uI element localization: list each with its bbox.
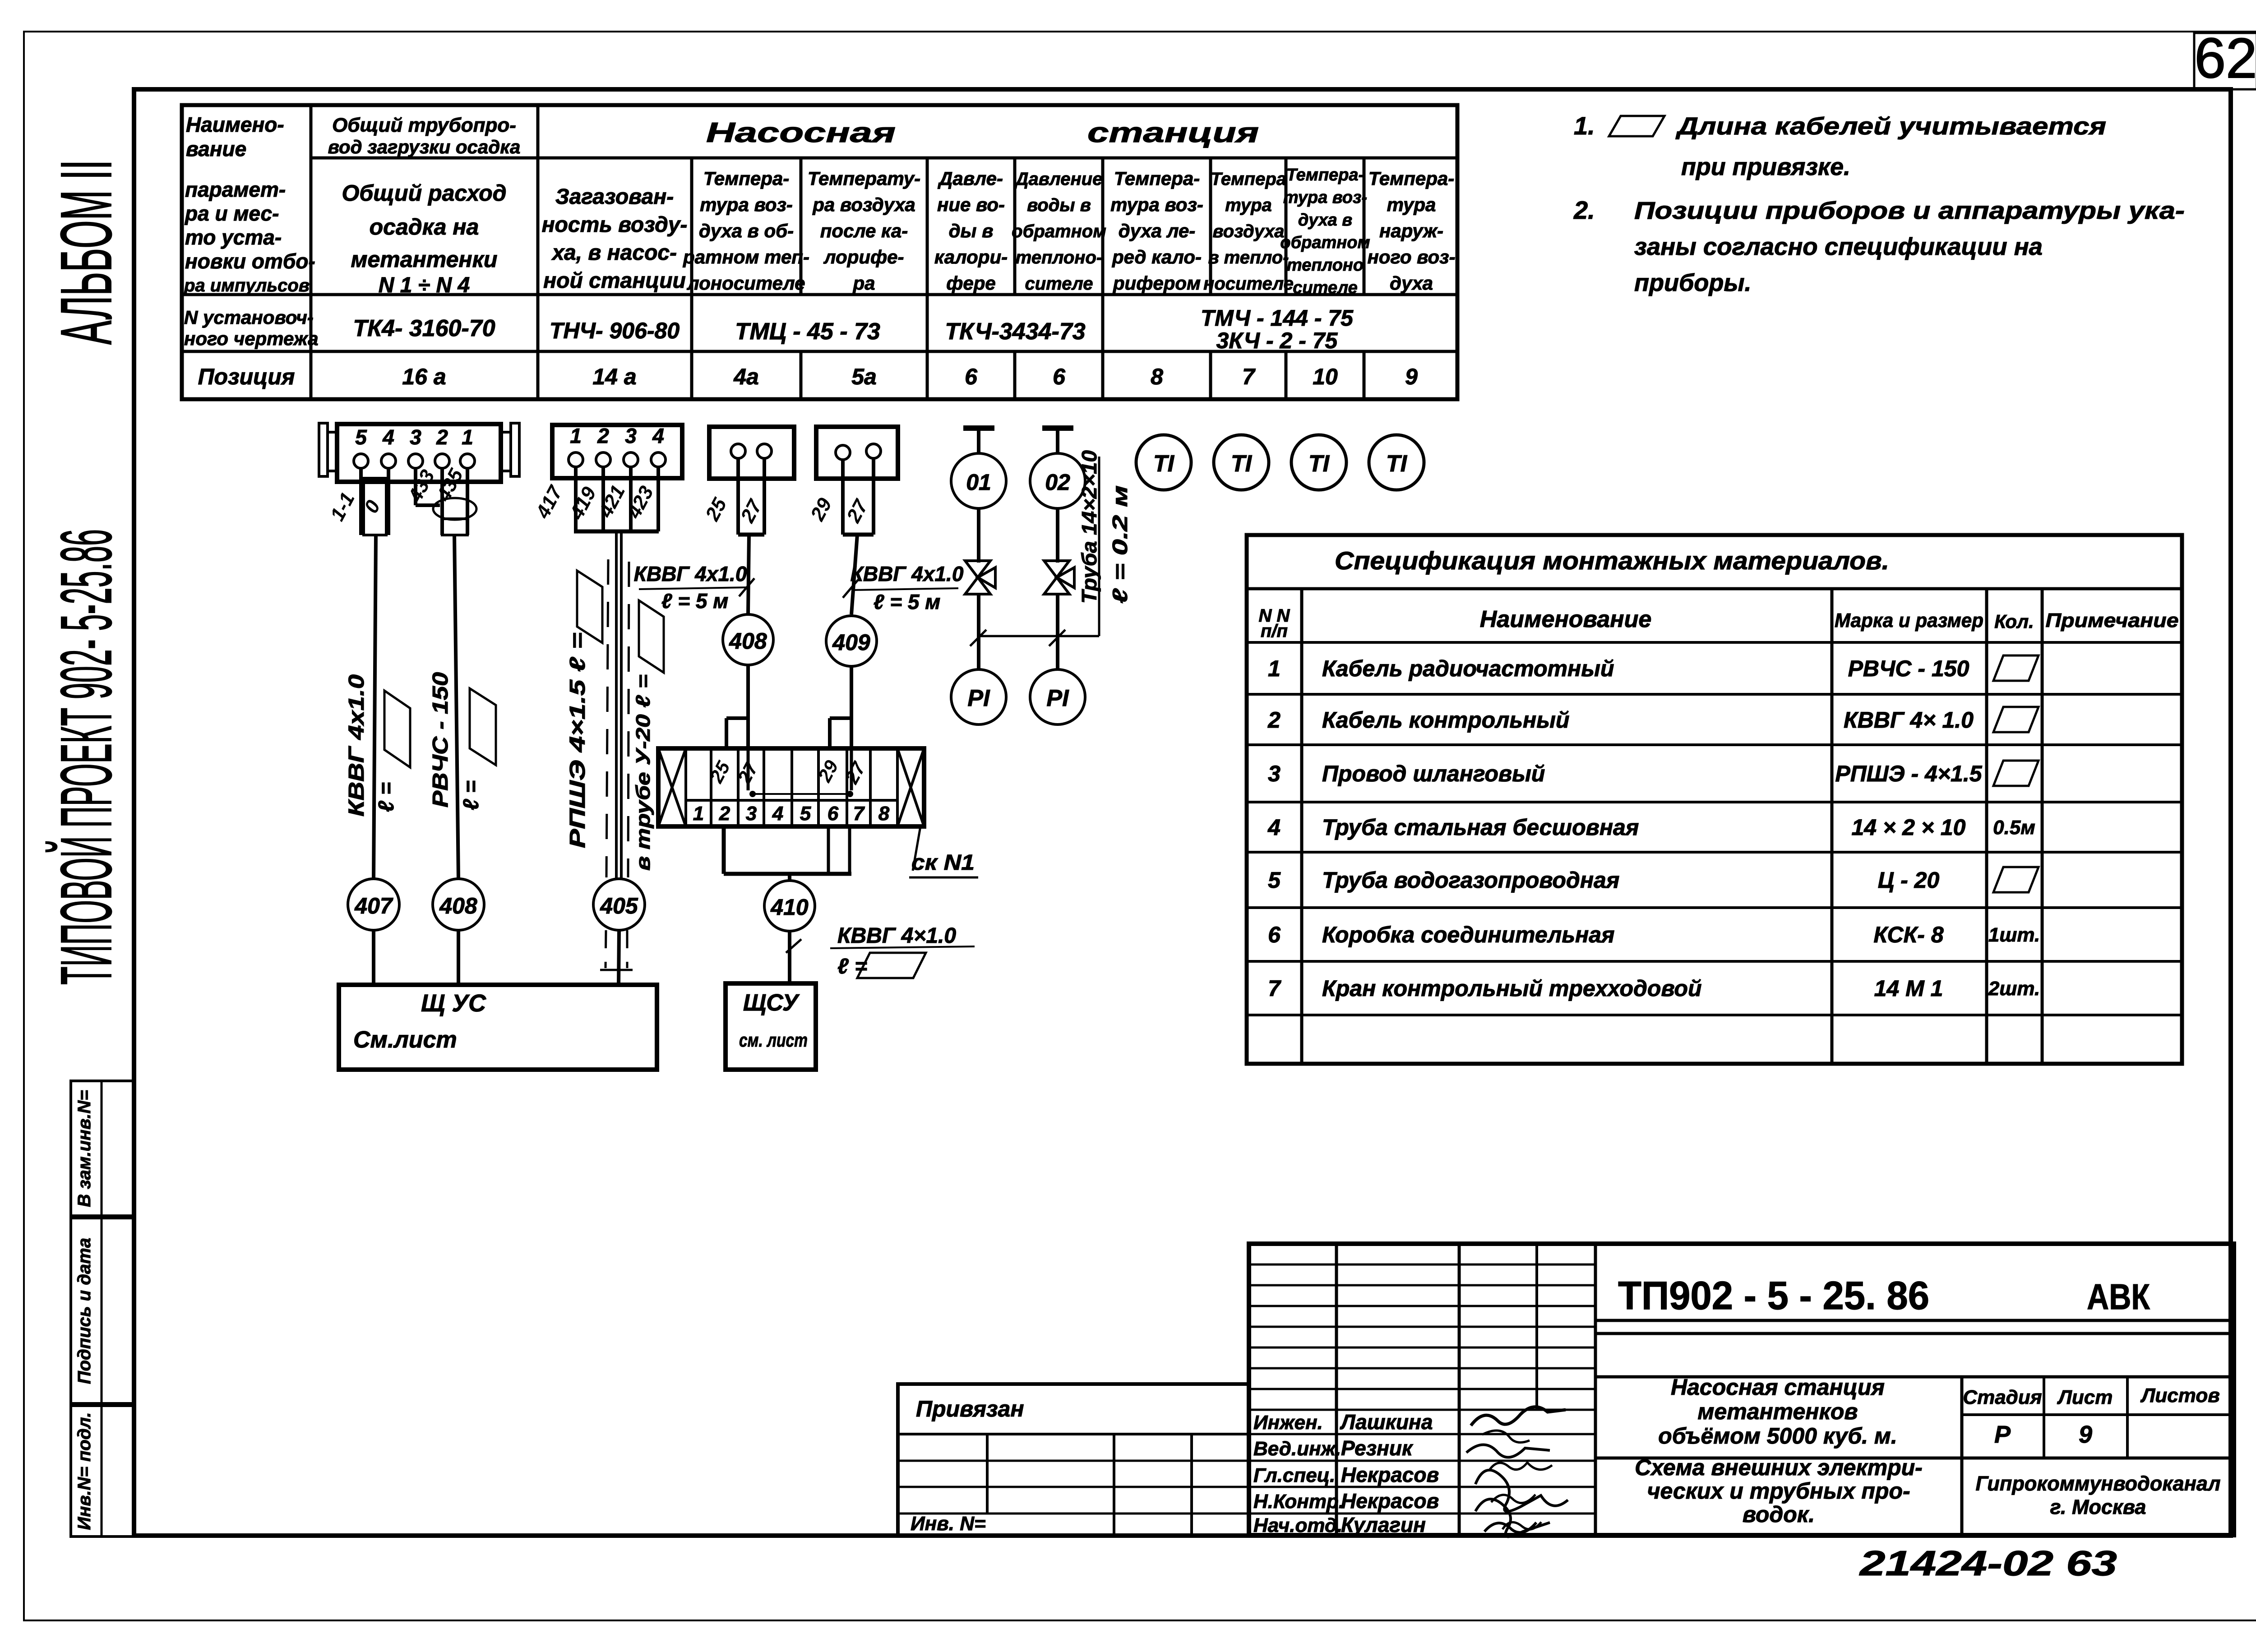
svg-text:Ц - 20: Ц - 20 — [1878, 868, 1940, 893]
pressure gauge PI 2 — [1030, 669, 1085, 724]
svg-text:16 а: 16 а — [402, 364, 446, 389]
pressure tap 02 branch — [1042, 425, 1073, 431]
svg-text:2: 2 — [1267, 707, 1281, 733]
svg-text:в трубе У-20 ℓ =: в трубе У-20 ℓ = — [632, 674, 654, 871]
svg-text:3: 3 — [625, 424, 637, 448]
svg-text:Инжен.: Инжен. — [1253, 1412, 1323, 1434]
label KVVG l=5M (409) — [851, 588, 958, 590]
svg-text:объёмом 5000 куб. м.: объёмом 5000 куб. м. — [1658, 1423, 1897, 1449]
svg-text:См.лист: См.лист — [353, 1027, 457, 1053]
svg-text:4а: 4а — [733, 364, 759, 389]
svg-text:Темпера-: Темпера- — [1286, 166, 1364, 185]
svg-text:5: 5 — [1268, 868, 1281, 893]
svg-text:3: 3 — [1268, 761, 1281, 786]
svg-text:сителе: сителе — [1025, 274, 1093, 294]
pressure gauge PI 1 — [951, 669, 1006, 724]
svg-text:Загазован-: Загазован- — [555, 185, 674, 209]
svg-text:см. лист: см. лист — [739, 1029, 808, 1051]
svg-text:Общий трубопро-: Общий трубопро- — [332, 114, 516, 136]
svg-text:Кабель радиочастотный: Кабель радиочастотный — [1322, 656, 1614, 681]
svg-text:ЩСУ: ЩСУ — [743, 990, 800, 1016]
svg-text:вание: вание — [186, 137, 246, 161]
svg-text:Примечание: Примечание — [2046, 609, 2179, 632]
svg-text:тура воз-: тура воз- — [1283, 188, 1367, 207]
svg-text:Гл.спец.: Гл.спец. — [1253, 1464, 1335, 1486]
svg-text:воды в: воды в — [1027, 195, 1091, 215]
svg-text:4: 4 — [1267, 815, 1281, 840]
svg-text:ТМЧ - 144 - 75: ТМЧ - 144 - 75 — [1201, 305, 1354, 331]
svg-text:7: 7 — [853, 803, 865, 825]
svg-text:теплоно-: теплоно- — [1016, 248, 1102, 268]
svg-text:то уста-: то уста- — [185, 226, 282, 249]
wire from XT1 terminal 4 — [387, 468, 390, 478]
sheet number box 62 — [2194, 33, 2256, 89]
svg-text:Насосная станция: Насосная станция — [1671, 1375, 1885, 1400]
svg-text:Лист: Лист — [2057, 1386, 2113, 1408]
svg-text:1: 1 — [693, 803, 704, 825]
svg-text:ТНЧ- 906-80: ТНЧ- 906-80 — [550, 318, 680, 343]
svg-text:Длина кабелей учитываетс: Длина кабелей учитывается — [1675, 113, 2106, 140]
svg-text:N 1 ÷ N 4: N 1 ÷ N 4 — [379, 273, 470, 297]
svg-text:калори-: калори- — [934, 246, 1008, 268]
svg-text:3КЧ - 2 - 75: 3КЧ - 2 - 75 — [1216, 328, 1338, 353]
svg-text:ТI: ТI — [1386, 451, 1408, 477]
svg-text:Гипрокоммунводоканал: Гипрокоммунводоканал — [1976, 1472, 2221, 1495]
svg-text:6: 6 — [828, 803, 839, 825]
loop symbol — [433, 498, 476, 520]
svg-text:4: 4 — [772, 803, 783, 825]
svg-text:ра воздуха: ра воздуха — [812, 194, 915, 215]
svg-text:духа ле-: духа ле- — [1119, 220, 1196, 241]
svg-text:ℓ = 5 м: ℓ = 5 м — [874, 590, 941, 614]
pressure tap 01 branch — [963, 425, 994, 431]
svg-text:9: 9 — [2079, 1421, 2092, 1448]
svg-text:после ка-: после ка- — [820, 220, 908, 241]
svg-text:ра: ра — [852, 272, 875, 294]
svg-text:7: 7 — [1268, 976, 1281, 1001]
svg-text:Труба 14×2×10: Труба 14×2×10 — [1077, 450, 1101, 604]
svg-text:Позиция: Позиция — [198, 364, 295, 389]
thermometer TI circle 4 — [1369, 435, 1424, 490]
svg-text:Р: Р — [1994, 1421, 2011, 1448]
svg-text:ТКЧ-3434-73: ТКЧ-3434-73 — [945, 318, 1085, 345]
svg-text:Листов: Листов — [2140, 1384, 2220, 1407]
svg-text:ного воз-: ного воз- — [1367, 246, 1455, 268]
svg-text:N установоч-: N установоч- — [184, 307, 314, 328]
svg-text:2: 2 — [719, 803, 730, 825]
title block main — [1249, 1244, 2234, 1535]
svg-text:обратном: обратном — [1012, 221, 1106, 241]
svg-text:В зам.инв.N=: В зам.инв.N= — [74, 1090, 94, 1207]
wire from XT1 terminal 2 — [440, 468, 444, 535]
svg-text:водок.: водок. — [1743, 1502, 1815, 1527]
svg-text:Темпера-: Темпера- — [703, 168, 790, 189]
svg-text:Труба стальная бесшовная: Труба стальная бесшовная — [1322, 815, 1639, 840]
svg-text:01: 01 — [966, 470, 991, 495]
svg-text:Инв. N=: Инв. N= — [911, 1513, 986, 1535]
internal link line — [747, 748, 750, 790]
svg-text:носителе: носителе — [1203, 274, 1294, 294]
three-way valve 2 — [1044, 561, 1069, 577]
svg-text:обратном: обратном — [1280, 233, 1370, 252]
svg-text:10: 10 — [1313, 364, 1338, 389]
svg-text:14 М 1: 14 М 1 — [1874, 976, 1943, 1001]
svg-text:ха, в насос-: ха, в насос- — [551, 241, 677, 265]
svg-text:Н.Контр.: Н.Контр. — [1253, 1490, 1344, 1513]
svg-text:парамет-: парамет- — [185, 178, 286, 201]
svg-text:лоносителе: лоносителе — [687, 272, 805, 294]
terminal block XT1 — [337, 424, 501, 482]
svg-text:Темпера-: Темпера- — [1114, 168, 1200, 189]
svg-text:6: 6 — [1053, 364, 1066, 389]
cable to 407 — [374, 535, 376, 879]
svg-text:9: 9 — [1405, 364, 1418, 389]
outgoing bottom loop to 410 — [722, 826, 726, 874]
svg-text:1: 1 — [1268, 656, 1281, 681]
svg-text:4: 4 — [382, 425, 394, 449]
svg-text:п/п: п/п — [1261, 621, 1288, 641]
svg-text:Стадия: Стадия — [1963, 1386, 2042, 1408]
svg-text:АВК: АВК — [2087, 1277, 2150, 1317]
terminal box 29/27 — [816, 427, 898, 479]
svg-text:Резник: Резник — [1341, 1436, 1414, 1460]
svg-text:тура воз-: тура воз- — [1110, 194, 1203, 215]
svg-text:3: 3 — [410, 425, 421, 449]
privyazan block — [898, 1384, 1249, 1536]
svg-text:1: 1 — [462, 425, 473, 449]
svg-text:62: 62 — [2194, 27, 2256, 90]
svg-text:станция: станция — [1087, 117, 1259, 148]
X marks — [658, 748, 686, 826]
svg-text:Давле-: Давле- — [938, 168, 1003, 189]
svg-text:ℓ =: ℓ = — [459, 780, 483, 810]
svg-text:409: 409 — [832, 630, 870, 655]
thermometer TI circle 3 — [1291, 435, 1346, 490]
svg-text:РВЧС - 150: РВЧС - 150 — [429, 672, 453, 808]
svg-text:наруж-: наруж- — [1379, 220, 1443, 241]
svg-text:ра импульсов: ра импульсов — [184, 276, 310, 295]
thermometer TI circle 1 — [1136, 435, 1191, 490]
svg-text:Коробка соединительная: Коробка соединительная — [1322, 922, 1615, 947]
svg-text:ного чертежа: ного чертежа — [184, 328, 319, 349]
terminal box 25/27 — [709, 427, 794, 479]
svg-text:КВВГ 4х1.0: КВВГ 4х1.0 — [634, 562, 747, 586]
instrument circle 408 — [433, 879, 484, 930]
instrument circle 409 — [826, 616, 877, 666]
svg-text:вод загрузки осадка: вод загрузки осадка — [328, 136, 521, 157]
instrument circle 408b — [723, 614, 773, 665]
svg-text:тура: тура — [1225, 195, 1272, 215]
svg-text:PI: PI — [1046, 685, 1069, 711]
panel ShchSU — [726, 983, 816, 1070]
svg-text:теплоно: теплоно — [1287, 256, 1364, 275]
instrument circle 405 — [593, 879, 645, 930]
svg-text:7: 7 — [1242, 364, 1256, 389]
instrument circle 410 — [764, 881, 815, 931]
svg-text:ТI: ТI — [1308, 451, 1330, 477]
svg-text:410: 410 — [770, 895, 809, 920]
svg-text:АЛЬБОМ II: АЛЬБОМ II — [46, 160, 126, 345]
svg-text:Наименование: Наименование — [1480, 606, 1652, 632]
thermometer TI circle 2 — [1214, 435, 1269, 490]
label KVVG (410) — [830, 946, 975, 948]
wire from XT1 terminal 5 — [359, 468, 363, 478]
signature squiggles — [1471, 1407, 1566, 1426]
svg-text:метантенков: метантенков — [1697, 1399, 1858, 1424]
spec table — [1247, 535, 2182, 1064]
RPShE cable down to 405 — [615, 531, 618, 879]
svg-text:0.5м: 0.5м — [1993, 817, 2035, 839]
cable to 408 — [454, 535, 458, 879]
svg-text:Лашкина: Лашкина — [1340, 1410, 1433, 1434]
svg-text:РПШЭ - 4×1.5: РПШЭ - 4×1.5 — [1835, 761, 1982, 786]
svg-text:Спецификация монтажных м: Спецификация монтажных материалов. — [1335, 546, 1889, 575]
svg-text:1: 1 — [570, 424, 582, 448]
svg-text:14 × 2 × 10: 14 × 2 × 10 — [1851, 815, 1965, 840]
svg-text:Труба водогазопроводная: Труба водогазопроводная — [1322, 868, 1619, 893]
svg-text:в тепло-: в тепло- — [1208, 248, 1289, 268]
cable marker rectangle — [364, 478, 386, 535]
svg-text:ТП902 - 5 - 25. 86: ТП902 - 5 - 25. 86 — [1618, 1273, 1929, 1318]
svg-text:Щ УС: Щ УС — [421, 990, 486, 1017]
instrument circle 407 — [348, 879, 399, 930]
svg-text:407: 407 — [354, 893, 393, 918]
svg-text:Темпера-: Темпера- — [1368, 168, 1455, 189]
svg-text:Схема внешних электри-: Схема внешних электри- — [1635, 1455, 1923, 1480]
svg-text:Общий расход: Общий расход — [342, 180, 506, 206]
wire from XT1 terminal 3 — [414, 468, 417, 505]
svg-text:РВЧС - 150: РВЧС - 150 — [1848, 656, 1969, 681]
svg-text:1.: 1. — [1574, 111, 1595, 140]
svg-text:ды в: ды в — [949, 220, 994, 241]
terminal block XT2 — [552, 425, 682, 478]
wire from XT1 terminal 1 — [466, 468, 469, 535]
svg-text:8: 8 — [1151, 364, 1163, 389]
svg-text:при привязке.: при привязке. — [1681, 153, 1850, 180]
svg-text:тура: тура — [1387, 194, 1436, 215]
svg-text:КВВГ 4х1.0: КВВГ 4х1.0 — [345, 674, 369, 817]
svg-text:ред кало-: ред кало- — [1112, 246, 1202, 268]
svg-text:ℓ = 0.2 м: ℓ = 0.2 м — [1108, 485, 1132, 604]
svg-text:1шт.: 1шт. — [1988, 924, 2040, 946]
cable glands on top — [725, 718, 728, 748]
svg-text:5: 5 — [355, 425, 367, 449]
svg-text:Насосная: Насосная — [706, 117, 896, 148]
svg-text:Кол.: Кол. — [1994, 611, 2034, 632]
svg-text:ТМЦ - 45 - 73: ТМЦ - 45 - 73 — [735, 318, 880, 345]
svg-text:духа в: духа в — [1298, 211, 1352, 230]
svg-text:новки отбо-: новки отбо- — [185, 249, 315, 273]
svg-text:ТI: ТI — [1231, 451, 1253, 477]
svg-text:ческих и трубных про-: ческих и трубных про- — [1647, 1478, 1910, 1504]
svg-text:Некрасов: Некрасов — [1341, 1463, 1439, 1486]
svg-text:осадка на: осадка на — [370, 214, 479, 240]
svg-text:рифером: рифером — [1113, 272, 1201, 294]
svg-text:ной станции: ной станции — [543, 269, 686, 293]
svg-text:приборы.: приборы. — [1634, 269, 1751, 296]
svg-text:Инв.N= подл.: Инв.N= подл. — [74, 1412, 94, 1530]
svg-text:ℓ = 5 м: ℓ = 5 м — [661, 589, 729, 613]
label KVVG l=5M (408) — [639, 587, 748, 589]
svg-text:фере: фере — [946, 272, 996, 294]
svg-text:5а: 5а — [851, 364, 877, 389]
svg-text:4: 4 — [652, 424, 664, 448]
panel ShchUS — [339, 985, 657, 1070]
svg-text:3: 3 — [746, 803, 757, 825]
svg-text:ℓ =: ℓ = — [374, 782, 398, 812]
svg-text:Давление: Давление — [1014, 169, 1103, 189]
junction box KSK-8 — [658, 748, 924, 826]
svg-text:тура воз-: тура воз- — [700, 194, 793, 215]
svg-text:заны согласно спецификации: заны согласно спецификации на — [1634, 233, 2043, 260]
svg-text:2шт.: 2шт. — [1988, 978, 2040, 1000]
svg-text:КВВГ 4× 1.0: КВВГ 4× 1.0 — [1844, 707, 1974, 733]
svg-text:Наимено-: Наимено- — [186, 113, 284, 136]
svg-text:КВВГ 4×1.0: КВВГ 4×1.0 — [837, 924, 956, 948]
svg-text:408: 408 — [439, 893, 477, 918]
svg-text:Марка и размер: Марка и размер — [1835, 609, 1983, 632]
svg-text:РПШЭ 4×1.5 ℓ =: РПШЭ 4×1.5 ℓ = — [566, 632, 590, 848]
svg-text:ра и мес-: ра и мес- — [184, 202, 279, 225]
svg-text:2.: 2. — [1573, 196, 1595, 224]
svg-text:воздуха: воздуха — [1213, 221, 1285, 241]
svg-text:21424-02 63: 21424-02 63 — [1858, 1543, 2117, 1583]
svg-text:Кулагин: Кулагин — [1341, 1513, 1426, 1537]
svg-text:6: 6 — [1268, 922, 1281, 947]
svg-text:6: 6 — [965, 364, 978, 389]
svg-text:02: 02 — [1045, 470, 1070, 495]
svg-text:г. Москва: г. Москва — [2050, 1495, 2146, 1518]
protective pipe dashed — [606, 559, 608, 877]
svg-text:2: 2 — [436, 425, 448, 449]
svg-text:Позиции приборов и аппара: Позиции приборов и аппаратуры ука- — [1634, 197, 2185, 224]
svg-text:КСК- 8: КСК- 8 — [1873, 922, 1943, 947]
svg-text:ск N1: ск N1 — [911, 851, 975, 875]
svg-text:5: 5 — [800, 803, 811, 825]
svg-text:лорифе-: лорифе- — [823, 246, 904, 268]
label sk N1 — [913, 826, 920, 871]
svg-text:Темпера: Темпера — [1211, 169, 1286, 189]
svg-text:духа в об-: духа в об- — [699, 220, 794, 241]
svg-text:КВВГ 4х1.0: КВВГ 4х1.0 — [851, 562, 964, 586]
three-way valve 1 — [965, 561, 990, 577]
svg-text:2: 2 — [597, 424, 609, 448]
svg-text:PI: PI — [967, 685, 990, 711]
svg-text:ТК4- 3160-70: ТК4- 3160-70 — [353, 315, 495, 341]
svg-text:Некрасов: Некрасов — [1341, 1489, 1439, 1513]
svg-text:сителе: сителе — [1293, 278, 1358, 297]
svg-text:Провод шланговый: Провод шланговый — [1322, 761, 1545, 786]
svg-text:Кран контрольный трехходовой: Кран контрольный трехходовой — [1322, 976, 1701, 1001]
svg-text:духа: духа — [1390, 272, 1433, 294]
svg-text:Подпись и дата: Подпись и дата — [74, 1238, 94, 1384]
svg-text:Нач.отд.: Нач.отд. — [1253, 1514, 1342, 1537]
svg-text:14 а: 14 а — [592, 364, 636, 389]
svg-text:ТИПОВОЙ ПРОЕКТ 902- 5-25.86: ТИПОВОЙ ПРОЕКТ 902- 5-25.86 — [46, 529, 126, 985]
svg-text:ность возду-: ность возду- — [542, 213, 688, 237]
svg-text:Вед.инж.: Вед.инж. — [1253, 1438, 1341, 1460]
svg-text:408: 408 — [729, 628, 767, 654]
svg-text:Привязан: Привязан — [916, 1396, 1024, 1421]
svg-text:405: 405 — [600, 893, 638, 918]
svg-text:метантенки: метантенки — [351, 247, 498, 272]
svg-text:Кабель контрольный: Кабель контрольный — [1322, 707, 1569, 733]
parameter table grid — [182, 105, 1457, 399]
svg-text:Температу-: Температу- — [808, 168, 920, 189]
svg-text:ние во-: ние во- — [937, 194, 1005, 215]
svg-text:ТI: ТI — [1153, 451, 1175, 477]
impulse pipe line — [979, 635, 1099, 637]
svg-text:8: 8 — [878, 803, 890, 825]
left attachment stamp boxes — [71, 1081, 134, 1216]
svg-text:ратном теп-: ратном теп- — [683, 246, 809, 268]
